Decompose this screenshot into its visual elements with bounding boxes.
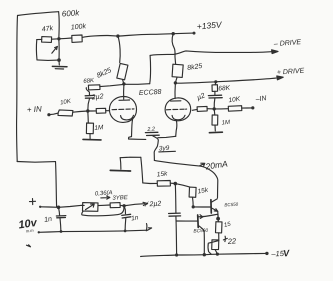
- wire: right plate lead into tube: [174, 83, 176, 99]
- wire: cathode bus left: [129, 137, 146, 140]
- wire: V1b grid to stopper: [192, 108, 197, 111]
- svg-text:68K: 68K: [83, 78, 95, 85]
- wire: bypass loop under boxes: [82, 206, 124, 216]
- triode V1b cathode: [172, 115, 185, 120]
- wire: 68K to u2 cap: [214, 91, 216, 95]
- transistor Q2 emitter with arrow to Q1 emitter node: [198, 214, 218, 218]
- wire: rail down to right plate resistor with hop over -DRIVE: [172, 34, 175, 64]
- svg-text:47k: 47k: [41, 25, 54, 33]
- capacitor 2u2 bottom plates: [169, 213, 181, 216]
- wire: 1M to ground: [89, 134, 91, 139]
- junction: left plate-resistor tap on rail: [116, 34, 119, 37]
- ground: trimmer ground symbol: [58, 60, 60, 65]
- wire: junction to 100k: [59, 37, 72, 40]
- junction: trimmer ground node: [57, 58, 61, 62]
- wire: resistor to row junction: [120, 204, 124, 206]
- resistor 15k horizontal body: [157, 181, 170, 187]
- node: lower row end tick: [148, 228, 152, 230]
- junction: 22 on rail: [216, 253, 219, 256]
- transistor Q2 collector down to rail: [198, 225, 204, 254]
- wire: bottom input row to junction: [40, 206, 58, 209]
- junction: Q2 collector on rail: [203, 253, 206, 256]
- node: row arrowhead: [143, 202, 148, 205]
- resistor 15k vertical body: [189, 187, 196, 197]
- wire: HT rail to +135V node: [118, 34, 173, 36]
- resistor 10K input body: [58, 110, 73, 116]
- svg-text:ECC88: ECC88: [139, 89, 162, 97]
- wire: 1n to lower row: [59, 218, 62, 232]
- capacitor 1n first, lead: [59, 207, 60, 215]
- wire: tap down to 15k row: [141, 157, 143, 183]
- triode V1a cathode: [121, 115, 134, 120]
- resistor 68k left body: [88, 85, 100, 90]
- svg-text:0,36(A: 0,36(A: [95, 190, 113, 197]
- node: + mark of bottom input: [30, 199, 36, 205]
- triode V1a ECC88 envelope: [109, 96, 136, 122]
- wire: 68k to left plate node: [100, 84, 124, 86]
- wire: +DRIVE run from right plate: [175, 78, 276, 83]
- wire: top edge to 600k node: [18, 12, 59, 16]
- wire: 2u2 down to -15V rail: [175, 216, 178, 253]
- node: -DRIVE arrowhead: [272, 50, 278, 54]
- wire: V1a cathode lead down: [132, 118, 134, 137]
- resistor grid stopper right body: [197, 106, 207, 111]
- triode V1b ECC88 envelope: [165, 98, 191, 121]
- junction: 2u2 on rail: [175, 253, 178, 256]
- svg-text:1n: 1n: [44, 216, 53, 224]
- node +IN terminal: [47, 113, 50, 116]
- wire: left grid node down to 1M: [87, 111, 90, 123]
- resistor grid stopper left body: [96, 108, 106, 113]
- resistor 68K right body: [212, 85, 218, 92]
- underline of 3y9: [159, 150, 176, 153]
- svg-text:600k: 600k: [62, 8, 81, 18]
- wire: right grid node to 10K: [214, 108, 228, 110]
- current source D1 arrow: [86, 204, 95, 210]
- triode V1b grid (dashed): [166, 108, 186, 111]
- tick glyph near 22: [223, 236, 227, 241]
- resistor 22 body: [212, 240, 219, 250]
- svg-text:3YBE: 3YBE: [112, 195, 129, 202]
- wire: Q1 base wire: [193, 206, 211, 208]
- svg-text:BC550: BC550: [224, 202, 239, 208]
- svg-text:2µ2: 2µ2: [90, 93, 104, 101]
- wire: tap down to ground bar: [119, 158, 122, 170]
- wire: -DRIVE takeoff from left plate: [124, 83, 150, 86]
- junction: right branch node on rail: [172, 32, 175, 35]
- svg-text:2,2: 2,2: [146, 126, 155, 133]
- wire: bypass loop left of 22: [208, 241, 219, 255]
- wire: right grid node down to 1M: [213, 109, 216, 115]
- wire: 47k left stub: [37, 38, 42, 40]
- svg-text:22: 22: [226, 236, 237, 246]
- wire: 22 to rail: [215, 250, 217, 254]
- wire: ground tap of tail network: [120, 156, 141, 159]
- svg-text:100k: 100k: [71, 23, 87, 31]
- wire: 47k right lead to junction: [52, 38, 59, 40]
- ground: under 1M right: [209, 131, 222, 134]
- svg-text:+ IN: + IN: [27, 104, 43, 114]
- wire: 100k to HT rail node: [82, 35, 118, 37]
- wire: emitter node to 15: [217, 219, 219, 222]
- svg-text:1M: 1M: [94, 124, 104, 132]
- wire: 15 to 22 node: [218, 233, 220, 240]
- wire: row node to arrow end: [124, 204, 145, 206]
- triode V1a grid (dashed): [112, 108, 134, 111]
- svg-text:1M: 1M: [221, 120, 230, 127]
- wire: down to bottom + input row: [56, 162, 57, 207]
- triode V1a plate bar: [119, 99, 130, 101]
- stray mark below 10V: [27, 245, 31, 247]
- resistor series body bottom row: [110, 203, 120, 208]
- capacitor 1n second, lead: [124, 206, 125, 214]
- wire: box to series resistor: [98, 204, 110, 207]
- wire: u2 cap to right grid node: [213, 98, 216, 109]
- node: +DRIVE arrowhead: [277, 76, 283, 80]
- wire: grid node to stopper: [88, 110, 96, 112]
- wire: 20mA run to current sink: [154, 160, 217, 197]
- svg-text:15k: 15k: [156, 170, 168, 178]
- junction: left plate node: [122, 82, 125, 85]
- resistor 8k25 right body: [172, 64, 183, 77]
- junction: left grid node: [86, 109, 89, 112]
- wire: 68k to 2u2 cap: [86, 88, 89, 96]
- triode V1b plate bar: [171, 100, 181, 102]
- capacitor u2 right plates: [208, 95, 222, 98]
- wire: rail down to left plate resistor: [118, 36, 120, 62]
- wire: 15k node down to 2u2: [174, 184, 177, 213]
- junction: bottom row node: [122, 204, 125, 207]
- wire: junction down to ground node: [58, 39, 60, 60]
- junction: 15k node: [174, 182, 178, 186]
- wire: cathode bus right: [158, 136, 176, 137]
- resistor 1M left body: [86, 123, 93, 134]
- node: 600k top corner, vertical down to trimmer junction: [58, 12, 61, 39]
- wire: V1b cathode lead down: [176, 121, 177, 137]
- wire: lower return row: [39, 230, 148, 232]
- transistor Q1 collector: [211, 199, 217, 203]
- wire: jog right at y161: [17, 161, 55, 164]
- current source D1 box: [83, 203, 99, 212]
- node: 20mA annotation arrow: [200, 163, 205, 166]
- wire: stopper to right grid node: [207, 108, 214, 110]
- junction: Q1 base node: [192, 205, 195, 208]
- wire: to 15k horizontal: [143, 182, 157, 185]
- wire: 8k25 to left plate junction: [123, 80, 124, 84]
- node: -15V terminal dot: [265, 252, 268, 255]
- junction: right plate node: [174, 81, 177, 84]
- wire: Q2 base wire: [176, 220, 198, 222]
- wire: cathode node down to tail: [153, 136, 159, 161]
- wire: junction to vertical 15k: [175, 184, 189, 187]
- wire: rail stub to +135V terminal: [173, 32, 194, 35]
- wire: 15k vertical to Q1 base node: [192, 197, 195, 207]
- junction: bottom input node: [57, 206, 61, 210]
- wire: trimmer loop bottom to ground node: [37, 59, 59, 62]
- junction: 1n on lower row: [60, 230, 63, 233]
- resistor 8k25 left body: [117, 63, 128, 79]
- resistor 15 body: [216, 222, 223, 233]
- wire: 1M right to ground: [214, 125, 216, 131]
- node -IN terminal: [251, 106, 254, 109]
- junction: right grid node: [213, 107, 216, 110]
- junction: 47k/100k node: [57, 37, 60, 40]
- wire: -DRIVE riser: [149, 55, 152, 83]
- wire: -15V rail: [141, 253, 267, 256]
- arrow glyph before 3YBE: [101, 196, 110, 199]
- wire: 15k to junction: [170, 182, 175, 184]
- ground: tail ground bar: [110, 169, 130, 172]
- wire: left feedback vertical from top-left corner down: [16, 16, 19, 162]
- capacitor 1n first plates: [56, 216, 65, 218]
- wire: 10K to -IN terminal: [242, 107, 253, 109]
- svg-text:68K: 68K: [218, 85, 231, 93]
- wire: 2u2 cap to grid node: [88, 98, 90, 111]
- capacitor 2u2 left plates: [85, 95, 94, 98]
- transistor Q2 BC560 base bar: [197, 215, 200, 227]
- capacitor 1n second plates: [122, 214, 131, 218]
- wire: input node to current source box: [59, 205, 85, 207]
- tick glyph on lower row end: [145, 224, 148, 231]
- transistor Q1 BC550 base bar: [210, 200, 212, 213]
- resistor 1M right body: [212, 115, 218, 125]
- junction: Q1 emitter node: [216, 217, 220, 221]
- resistor R trim 47k body: [42, 37, 52, 43]
- wire: trimmer loop left side down: [35, 40, 38, 60]
- wire: stopper to V1a grid: [106, 110, 110, 112]
- svg-text:m.m: m.m: [26, 228, 35, 234]
- wiper arrow of trimmer: [52, 47, 58, 54]
- junction: 68K tap on +DRIVE: [214, 80, 217, 83]
- wire: 1n second to lower row: [124, 218, 127, 231]
- node +135V terminal dot: [193, 32, 196, 35]
- junction: 1n second on lower row: [124, 230, 127, 233]
- wire: +DRIVE node to 68K: [214, 82, 217, 85]
- wire: 10K to left grid node: [73, 111, 88, 112]
- ground: under 1M left: [83, 138, 101, 141]
- svg-text:BC560: BC560: [193, 228, 208, 235]
- wire: -DRIVE horizontal run: [150, 51, 271, 56]
- capacitor 2,2 cathode plates: [145, 132, 159, 135]
- wire: 8k25 right to plate junction: [175, 77, 177, 82]
- transistor Q1 emitter with arrow: [211, 208, 218, 218]
- wire: left plate lead into tube: [123, 84, 125, 99]
- wire: +IN to 10K: [49, 113, 58, 115]
- resistor 10K right body: [228, 106, 242, 112]
- svg-text:⁄ 2µ2: ⁄ 2µ2: [144, 200, 161, 208]
- resistor 100k body: [72, 35, 82, 42]
